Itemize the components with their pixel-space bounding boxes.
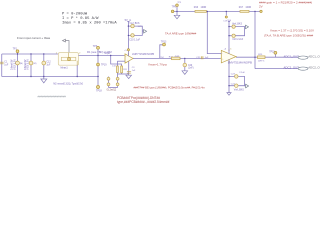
test point TP6 [176,4,179,7]
svg-text:TP15: TP15 [269,52,275,54]
svg-text:LMP7715MF/NOPB: LMP7715MF/NOPB [132,53,154,56]
test point TP13 [163,43,166,46]
U2 supply down + block right-lower [228,59,230,92]
svg-text:#### gain = 1 + R21/R20 = 2 ##: #### gain = 1 + R21/R20 = 2 ####(###) [259,0,312,4]
svg-text:R16: R16 [194,6,199,9]
branch circles below rail [108,77,110,88]
capacitor C12 [42,61,46,65]
svg-text:ADC2_OUT: ADC2_OUT [308,65,320,69]
test point TP1 [17,53,19,54]
svg-text:LMV751MA/NOPB: LMV751MA/NOPB [228,60,252,64]
wire column C12 [43,54,45,77]
svg-text:1uF: 1uF [4,65,9,67]
op-amp U1 [125,54,133,63]
svg-text:4k99: 4k99 [175,56,181,58]
junction dots [17,11,256,87]
svg-text:TP19: TP19 [101,65,107,67]
svg-text:(1V): (1V) [160,57,164,59]
source VS3 [29,61,33,65]
svg-text:###TP## BE type,(1/8W##), PCB#: ###TP## BE type,(1/8W##), PCB#(3/3).5mm#… [134,86,206,90]
wire left column C11 [1,54,3,77]
feedback network U1 [111,56,122,75]
svg-text:C12: C12 [46,61,51,63]
wire bottom rail [2,76,99,78]
svg-text:ADC2_OUT: ADC2_OUT [284,65,300,69]
svg-text:I = P * 0.85 A/W: I = P * 0.85 A/W [62,16,99,21]
wire column VS2 [17,54,19,77]
ground top [176,11,178,15]
svg-text:M2 meas(0.3(3)), Tgnd(0.5V): M2 meas(0.3(3)), Tgnd(0.5V) [53,84,83,86]
svg-text:From input current + Ibias: From input current + Ibias [17,36,51,40]
capacitor C11 [0,62,4,64]
supply U1 [127,21,129,56]
top feedback wire [174,10,261,12]
svg-text:0.6mA/3V: 0.6mA/3V [24,59,27,70]
svg-text:0.6mA/3V: 0.6mA/3V [11,59,14,70]
svg-text:5: 5 [230,48,231,50]
svg-text:TP1: TP1 [13,47,18,50]
capacitor C13 [117,66,119,73]
op-amp U1 output wire [133,57,222,59]
svg-text:Vopa: Vopa [104,52,110,55]
svg-text:TP6: TP6 [172,7,177,9]
svg-text:1: 1 [56,52,57,54]
svg-text:1uF: 1uF [205,57,209,59]
svg-text:C10 1.1uF: C10 1.1uF [129,39,140,41]
capacitor C20 to gnd [184,58,186,63]
resistor R21 [172,57,181,60]
current source IG1 [58,53,78,66]
current arrow [65,41,69,53]
svg-text:C20: C20 [188,65,193,67]
svg-text:C20 2.2uF: C20 2.2uF [232,39,243,41]
wire top rail [2,53,59,55]
test point TP15 [274,51,277,54]
annotation text P/I/Imax [62,13,117,26]
svg-text:###################: ################### [38,94,67,98]
resistor R11 [121,66,123,73]
svg-text:Meas1: Meas1 [61,66,69,69]
svg-text:(M): (M) [33,63,36,65]
U2 inverting feedback wire [207,11,221,53]
svg-text:2V: 2V [259,4,263,8]
svg-text:10R %: 10R % [258,61,265,63]
svg-text:2.2uF: 2.2uF [239,72,245,74]
wire column VS3 [30,54,32,77]
svg-text:Vref_BKS: Vref_BKS [129,22,139,25]
svg-text:GL2w/Q2: GL2w/Q2 [107,89,117,91]
svg-text:TP18: TP18 [96,89,102,92]
svg-text:100R: 100R [245,6,251,9]
U2 supply up [228,21,230,54]
source VS2 [16,61,20,65]
op-amp U2 [221,50,236,63]
ground U1 [128,74,130,75]
svg-text:(TA:A, TA:B ARE type 1/3(9/2/3: (TA:A, TA:B ARE type 1/3(9/2/3)) #### [264,34,314,38]
svg-text:Vmax = 1.37 + (1.5*0.3/2) = 5.: Vmax = 1.37 + (1.5*0.3/2) = 5.10V [270,28,314,32]
svg-text:R17: R17 [239,6,244,9]
ground left [43,77,45,80]
wire current source bottom [76,65,78,76]
capacitor C19 stub [225,11,227,15]
red annotations [134,0,315,89]
svg-text:Vref_BKS: Vref_BKS [234,89,244,92]
svg-text:TP3: TP3 [93,45,98,48]
svg-text:(1nF): (1nF) [188,68,194,70]
U2 output [236,56,299,58]
wire main input net [79,55,126,57]
svg-text:ADC1_OUT: ADC1_OUT [308,54,320,58]
test point TP3 chain [97,46,100,49]
svg-text:Imax = 0.85 x 200 =170uA: Imax = 0.85 x 200 =170uA [62,22,117,26]
svg-text:100R: 100R [201,6,207,9]
svg-text:Vmax≈1.7Vp-p: Vmax≈1.7Vp-p [148,63,167,67]
svg-text:(M): (M) [20,63,23,65]
svg-text:TP13: TP13 [161,41,167,43]
svg-text:1uF: 1uF [46,64,51,66]
svg-text:ADC1_OUT: ADC1_OUT [284,54,300,58]
test point TP18 [97,77,99,86]
capacitor C3 [127,72,131,73]
net flag 2V [260,10,262,12]
svg-text:TA:A ARE type 1/8W###: TA:A ARE type 1/8W### [165,31,197,35]
svg-text:type,###PCB#####..,####2.54mm#: type,###PCB#####..,####2.54mm## [117,100,170,104]
svg-text:2: 2 [79,53,80,55]
